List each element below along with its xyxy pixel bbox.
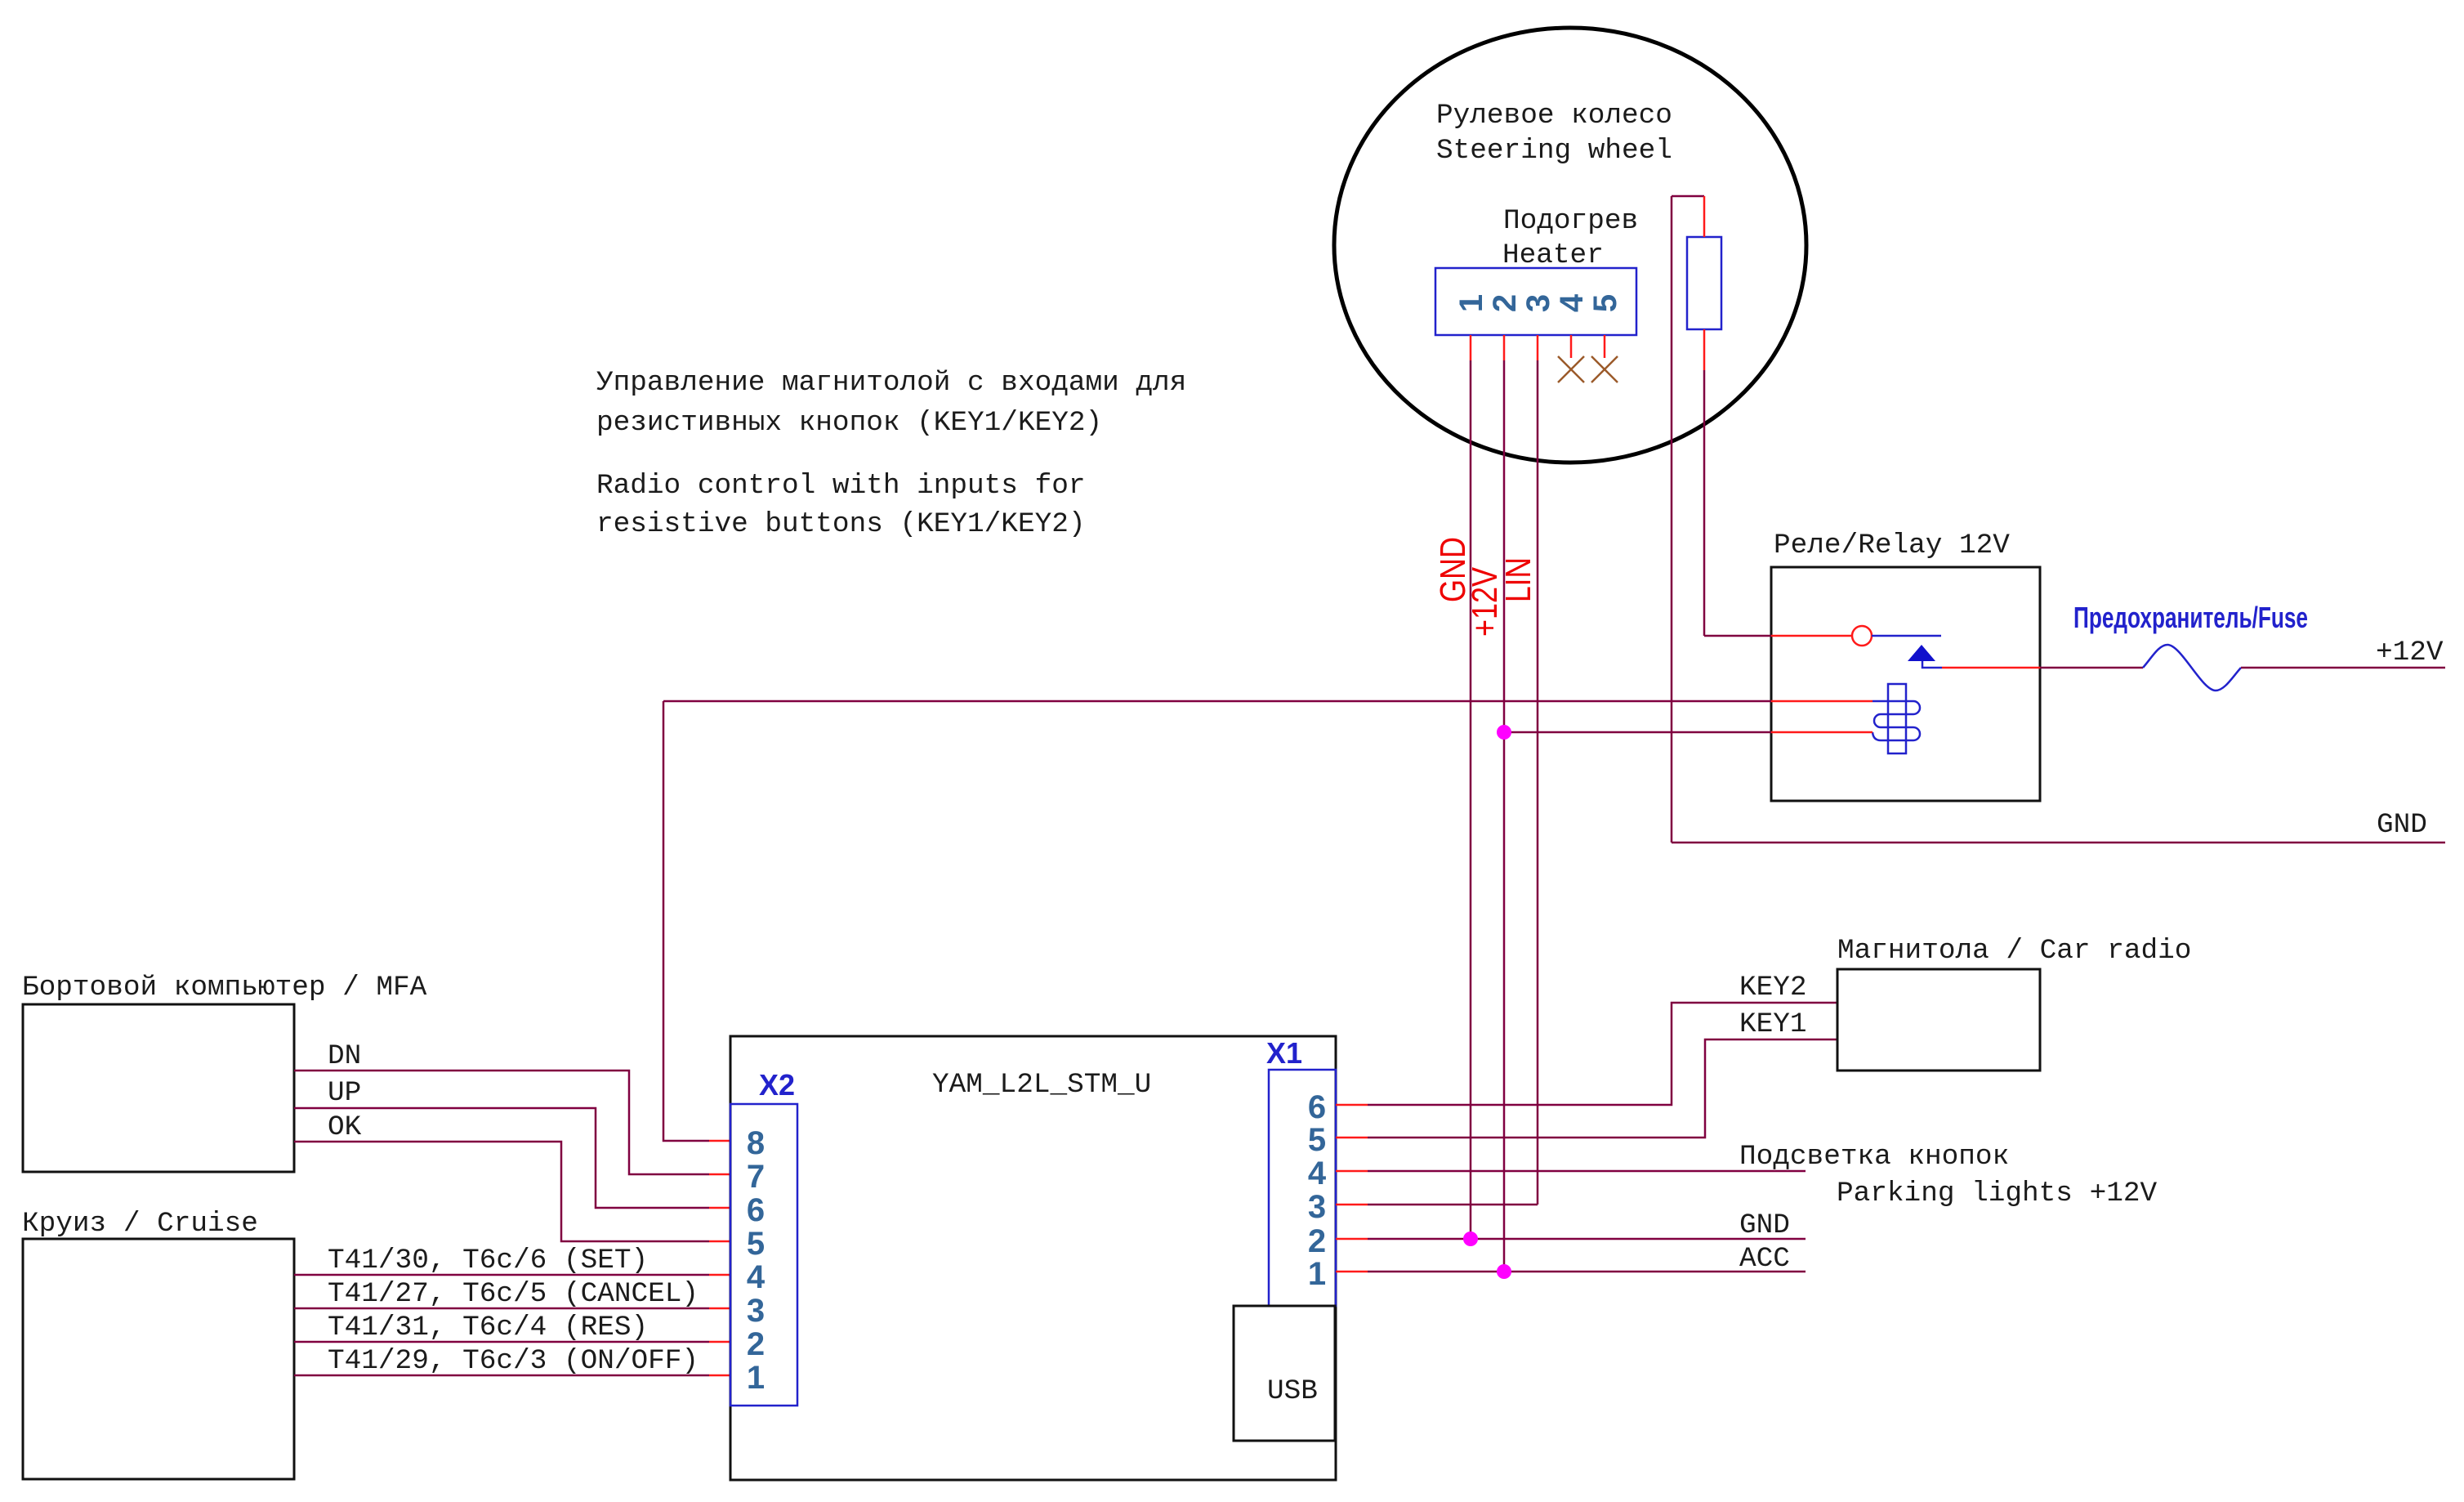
fuse F1 [2143, 645, 2241, 691]
svg-text:Parking lights +12V: Parking lights +12V [1837, 1178, 2157, 1209]
wire X1 pin5 [1336, 1137, 1368, 1139]
wire resistor top link [1672, 195, 1704, 198]
svg-text:4: 4 [747, 1259, 766, 1295]
connector X1 [1269, 1070, 1336, 1306]
main unit box [730, 1036, 1336, 1480]
svg-text:6: 6 [747, 1192, 765, 1228]
connector X2 [730, 1104, 797, 1406]
svg-text:X2: X2 [759, 1068, 795, 1102]
wire contact feed [1704, 635, 1771, 637]
wire heater pin5 stub [1604, 335, 1606, 358]
relay contact circle [1852, 626, 1872, 646]
svg-text:4: 4 [1554, 293, 1590, 312]
wire resistor-bottom vertical [1703, 370, 1706, 636]
svg-text:Radio control with inputs for: Radio control with inputs for [596, 470, 1086, 502]
wire X1 pin4 [1336, 1170, 1368, 1173]
steering wheel circle [1334, 28, 1806, 463]
resistor R heater [1687, 237, 1721, 329]
svg-text:3: 3 [1308, 1189, 1326, 1225]
relay arrow [1908, 645, 1935, 661]
wire heater pin1 stub [1470, 335, 1472, 360]
wire GND out [1672, 842, 2445, 844]
svg-text:Heater: Heater [1502, 239, 1604, 271]
svg-text:3: 3 [747, 1293, 765, 1329]
USB box [1234, 1306, 1335, 1441]
svg-text:Бортовой компьютер / MFA: Бортовой компьютер / MFA [22, 972, 427, 1004]
wire heater pin4 stub [1570, 335, 1573, 358]
svg-text:DN: DN [328, 1040, 361, 1072]
heater pin 5 [1587, 294, 1623, 312]
heater connector box [1435, 268, 1636, 335]
svg-text:YAM_L2L_STM_U: YAM_L2L_STM_U [932, 1069, 1151, 1101]
wire X1 pin2 [1336, 1238, 1368, 1240]
svg-text:8: 8 [747, 1125, 765, 1161]
junction dot ACC [1497, 1264, 1511, 1279]
svg-text:T41/30, T6c/6 (SET): T41/30, T6c/6 (SET) [328, 1245, 648, 1276]
wire heater pin2 stub [1503, 335, 1506, 360]
heater pin 1 [1453, 294, 1489, 312]
wire X1 pin3 [1336, 1204, 1368, 1206]
svg-text:7: 7 [747, 1159, 765, 1195]
svg-text:Подсветка кнопок: Подсветка кнопок [1739, 1141, 2009, 1173]
heater pin 4 [1554, 293, 1590, 312]
svg-text:T41/31, T6c/4 (RES): T41/31, T6c/4 (RES) [328, 1312, 648, 1343]
wire heater pin3 stub [1537, 335, 1539, 360]
heater pin 2 [1487, 294, 1523, 312]
relay box [1771, 567, 2040, 801]
svg-text:2: 2 [1308, 1223, 1326, 1259]
svg-text:Steering wheel: Steering wheel [1436, 135, 1672, 167]
wire X1 pin6 [1336, 1104, 1368, 1106]
wire loop-left vertical [1671, 196, 1673, 843]
no-connect X pin5 [1591, 356, 1618, 382]
svg-text:Подогрев: Подогрев [1503, 205, 1638, 237]
svg-text:ACC: ACC [1739, 1243, 1790, 1275]
junction dot GND [1463, 1232, 1478, 1246]
svg-text:5: 5 [1308, 1122, 1326, 1158]
svg-text:Управление магнитолой с входам: Управление магнитолой с входами для [596, 367, 1186, 399]
no-connect X pin4 [1558, 356, 1584, 382]
wire +12V vertical [1503, 360, 1506, 1272]
wire resistor bottom stub [1703, 329, 1706, 370]
Cruise box [23, 1239, 294, 1479]
svg-text:5: 5 [1587, 294, 1623, 312]
wire pin8 riser [663, 701, 709, 1141]
svg-text:1: 1 [1453, 294, 1489, 312]
svg-text:2: 2 [747, 1326, 765, 1362]
svg-text:X1: X1 [1266, 1036, 1302, 1070]
svg-text:KEY2: KEY2 [1739, 972, 1807, 1004]
svg-text:Магнитола / Car radio: Магнитола / Car radio [1837, 935, 2191, 967]
svg-text:резистивных кнопок (KEY1/KEY2): резистивных кнопок (KEY1/KEY2) [596, 407, 1102, 439]
car radio box [1837, 969, 2040, 1071]
svg-text:KEY1: KEY1 [1739, 1008, 1807, 1040]
svg-text:Предохранитель/Fuse: Предохранитель/Fuse [2073, 601, 2308, 634]
svg-text:1: 1 [1308, 1256, 1326, 1292]
wire coil top [663, 700, 1771, 703]
heater pin 3 [1520, 294, 1556, 312]
MFA box [23, 1004, 294, 1172]
svg-text:5: 5 [747, 1226, 765, 1262]
wire X1 pin1 [1336, 1271, 1368, 1273]
wire LIN vertical [1537, 360, 1539, 1205]
svg-text:3: 3 [1520, 294, 1556, 312]
svg-text:+12V: +12V [2376, 637, 2444, 668]
svg-text:4: 4 [1308, 1156, 1327, 1191]
wire GND vertical [1470, 360, 1472, 1239]
svg-text:2: 2 [1487, 294, 1523, 312]
relay fixed contact [1872, 635, 1941, 637]
svg-text:UP: UP [328, 1077, 361, 1109]
svg-text:resistive buttons (KEY1/KEY2): resistive buttons (KEY1/KEY2) [596, 508, 1086, 540]
svg-text:GND: GND [1739, 1209, 1790, 1241]
wire coil bottom [1504, 731, 1771, 734]
junction dot coil/+12V [1497, 725, 1511, 740]
svg-text:6: 6 [1308, 1089, 1326, 1125]
svg-text:LIN: LIN [1498, 557, 1538, 602]
svg-text:1: 1 [747, 1360, 765, 1396]
svg-text:USB: USB [1267, 1375, 1318, 1407]
svg-text:Реле/Relay 12V: Реле/Relay 12V [1774, 530, 2010, 561]
svg-text:GND: GND [2377, 809, 2427, 841]
wire +12V out red [1942, 667, 2040, 669]
svg-text:Рулевое колесо: Рулевое колесо [1436, 100, 1672, 132]
svg-text:T41/29, T6c/3 (ON/OFF): T41/29, T6c/3 (ON/OFF) [328, 1345, 699, 1377]
svg-text:Круиз / Cruise: Круиз / Cruise [22, 1208, 258, 1240]
svg-text:T41/27, T6c/5 (CANCEL): T41/27, T6c/5 (CANCEL) [328, 1278, 699, 1310]
svg-text:OK: OK [328, 1111, 362, 1143]
relay coil [1873, 684, 1920, 753]
